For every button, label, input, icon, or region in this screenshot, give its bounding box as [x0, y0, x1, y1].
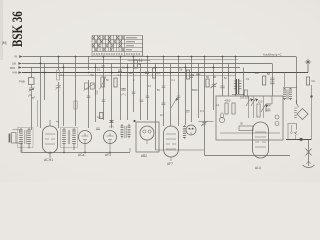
svg-text:KW: KW	[12, 71, 17, 75]
small fuse ellipse	[221, 113, 224, 118]
junction (64,152.5)	[63, 152, 65, 154]
wire drop x63.5	[63, 64, 65, 127]
wire drop x31.5 (PhB feed)	[31, 68, 33, 78]
heater u-shapes	[290, 132, 297, 134]
wire drop x103.5	[103, 57, 105, 121]
tube T6 small circle	[186, 125, 196, 135]
wire x22 to ground bus	[21, 142, 23, 152]
svg-text:4000: 4000	[225, 99, 231, 103]
junction (222.5,56.5)	[222, 56, 224, 58]
junction (133.5,56.5)	[133, 56, 135, 58]
wire drop x198.5	[198, 64, 200, 119]
trimmer x58	[55, 85, 61, 89]
rail y72.5	[22, 72, 308, 74]
wire drop x204.5 and bottom bus	[205, 57, 291, 156]
wire drop x235.5	[235, 57, 237, 97]
junction (85,152.5)	[84, 152, 86, 154]
wire drop x120.5	[120, 57, 122, 121]
capacitor x123	[121, 88, 125, 90]
trimmer capacitor x204	[201, 121, 208, 126]
output transformer coils	[283, 73, 297, 101]
left band labels	[10, 55, 17, 75]
wire drop x58.5	[58, 57, 60, 129]
wire drop x40.5	[40, 57, 42, 129]
junction (155.5,67.5)	[155, 67, 157, 69]
capacitor x147	[145, 72, 149, 74]
svg-text:0,1: 0,1	[118, 73, 122, 77]
variable arrow over cap pair	[84, 84, 95, 91]
resistor x75	[74, 101, 77, 109]
wire x130 bus end	[129, 148, 131, 152]
wire drop x243.5	[243, 68, 245, 97]
svg-text:ACa…: ACa…	[78, 153, 87, 157]
rail y59.5	[90, 59, 238, 61]
link with trimmer cap	[199, 121, 214, 123]
svg-text:AL4: AL4	[255, 166, 261, 170]
junction (311.5,96.5)	[310, 95, 312, 97]
mains drop with switch X	[308, 140, 310, 167]
capacitor x222	[220, 86, 224, 88]
junction (191.5,56.5)	[191, 56, 193, 58]
capacitor x120	[118, 70, 122, 72]
svg-text:MW: MW	[10, 66, 15, 70]
junction (147.5,56.5)	[147, 56, 149, 58]
heater wire stubs	[292, 125, 296, 139]
svg-text:0,1: 0,1	[160, 113, 164, 117]
junction (127.5,67.5)	[127, 67, 129, 69]
mains switch X	[306, 149, 312, 156]
junction (163.5,56.5)	[163, 56, 165, 58]
junction (111.5,121.4)	[111, 120, 113, 122]
junction (178.5,56.5)	[178, 56, 180, 58]
svg-text:PhB: PhB	[19, 80, 25, 84]
junction (63.5,67.5)	[63, 67, 65, 69]
plug arrow barbs	[306, 161, 311, 164]
scattered small capacitor marks mid band	[87, 76, 194, 112]
coil hump above T3	[109, 126, 114, 128]
antenna coil pair	[18, 128, 34, 148]
tube T1 ACH1	[43, 120, 58, 162]
resistor x58 y70-82	[57, 70, 60, 80]
wire drop x95.5	[95, 64, 97, 123]
potentiometer wiper arrow	[100, 77, 107, 90]
junction (185.5,67.5)	[185, 67, 187, 69]
wire hook below speaker	[296, 131, 297, 135]
capacitor x198	[196, 73, 201, 75]
wire drop x133.5	[133, 57, 135, 113]
wire drop x155.5	[155, 64, 157, 151]
small cap x96	[95, 91, 97, 95]
svg-text:50: 50	[213, 75, 216, 79]
corner vertical x272 (rail y63 down to box)	[272, 64, 274, 97]
coil tower right of T5	[183, 125, 186, 139]
svg-text:220: 220	[258, 100, 263, 104]
wire drop x37.5	[37, 100, 39, 127]
coil squiggle below	[29, 95, 35, 99]
junction (103.5,56.5)	[103, 56, 105, 58]
coil hump x123	[121, 94, 126, 96]
wire stub x56	[56, 121, 59, 123]
junction (95.5,67.5)	[95, 67, 97, 69]
right edge vertical	[311, 85, 313, 139]
wire drop x191.5	[191, 57, 193, 123]
svg-text:110 125: 110 125	[240, 96, 250, 100]
left pickup / speaker small box	[13, 130, 20, 134]
junction blob on mains rail	[300, 138, 303, 141]
band switch table	[92, 36, 143, 57]
capacitors x272	[270, 78, 275, 84]
component x246	[244, 90, 247, 96]
tube T2 circle	[78, 131, 92, 158]
resistor at far right 170ohm	[306, 77, 309, 85]
svg-text:0,1: 0,1	[61, 73, 65, 77]
tube T5 oval	[164, 126, 179, 166]
svg-text:0,5: 0,5	[157, 71, 161, 75]
rail y56	[23, 56, 296, 58]
svg-text:ACH1: ACH1	[44, 158, 53, 162]
rail y63	[22, 63, 272, 65]
resistor x154	[152, 68, 155, 78]
cap pair x85-95	[85, 83, 89, 89]
trimmer cap below PhB	[29, 85, 35, 94]
svg-text:W: W	[14, 55, 17, 59]
wire drop x185.5	[185, 64, 187, 126]
junction (170.5,72.5)	[170, 72, 172, 74]
component box x135	[134, 60, 137, 68]
potentiometer x102	[101, 77, 105, 87]
IF transformer 2	[121, 124, 131, 138]
tube T3 circle	[104, 131, 117, 158]
wire drop x222.5	[222, 57, 224, 97]
scattered tiny value labels	[61, 62, 271, 119]
capacitor on link y60	[140, 59, 142, 63]
junction (120.5,56.5)	[120, 56, 122, 58]
capacitor x163	[162, 103, 166, 105]
rail y67	[22, 67, 240, 69]
junction (111.5,72.5)	[111, 72, 113, 74]
junction (40.5,63.5)	[40, 63, 42, 65]
corner vertical x296 (rail y56 down)	[296, 57, 298, 105]
svg-text:BSK 36: BSK 36	[9, 11, 25, 47]
scattered tiny value labels mid band	[97, 67, 250, 108]
wire drop x75.5	[75, 57, 77, 127]
plug arc (anchor)	[303, 165, 315, 168]
junction (213.5,67.5)	[213, 67, 215, 69]
junction (110,152.5)	[109, 152, 111, 154]
wire drop x170.5	[170, 64, 172, 127]
svg-text:AF3: AF3	[105, 153, 111, 157]
junction (204.5,56.5)	[204, 56, 206, 58]
wire drop x44.5	[44, 64, 46, 101]
wire drop x163.5	[163, 57, 165, 127]
junction (228.5,72.5)	[228, 72, 230, 74]
capacitor C2b	[90, 83, 94, 89]
dial lamp top right	[305, 59, 312, 73]
resistor x101	[99, 113, 103, 119]
svg-text:LW: LW	[12, 61, 16, 65]
resistor 1M x264	[262, 76, 265, 85]
choke blob	[232, 79, 244, 95]
trimmer capacitor x214	[211, 83, 218, 88]
wire x31.5 to antenna coil	[31, 93, 33, 130]
wire drop x111.5	[111, 64, 113, 129]
svg-text:AB2: AB2	[141, 154, 147, 158]
resistor x114	[114, 78, 117, 87]
wire drop x213.5	[213, 64, 215, 111]
table X marks	[92, 36, 124, 51]
wire drop x147.5	[147, 57, 149, 121]
speaker field coil	[297, 100, 299, 108]
svg-text:5000: 5000	[192, 89, 198, 92]
avc pot arrow	[171, 99, 177, 109]
tube T4 box with magic eye	[136, 122, 159, 158]
PhB pickup box	[29, 78, 35, 85]
resistor x207	[206, 79, 209, 87]
PSU internals	[219, 96, 280, 133]
svg-text:50: 50	[267, 72, 270, 76]
wire link y60	[128, 59, 151, 61]
svg-text:50: 50	[206, 75, 209, 79]
junction (50,152.5)	[49, 152, 51, 154]
wire x288 to mains rail	[287, 123, 289, 139]
wires IF1 to ground bus	[64, 146, 74, 153]
speaker diamond	[297, 109, 308, 120]
junction (134.5,121)	[133, 120, 135, 122]
junction (88.5,72.5)	[88, 72, 90, 74]
paper background	[0, 0, 320, 182]
wire link y150	[156, 149, 205, 151]
table right column text (smudges)	[94, 38, 141, 54]
mid components right half	[186, 70, 189, 79]
wire drop x228.5	[228, 64, 230, 97]
svg-text:50: 50	[138, 62, 141, 66]
caps cluster near x100-130	[101, 66, 105, 68]
arrows at rail left ends	[18, 55, 23, 73]
ground bus y152.5	[21, 146, 130, 153]
PSU box	[216, 96, 283, 140]
wire drop x140.5	[140, 64, 142, 121]
junction (235.5,56.5)	[235, 56, 237, 58]
svg-text:Ausführung ≈C: Ausführung ≈C	[263, 52, 282, 56]
wire drop x178.5	[178, 57, 180, 127]
svg-text:≈Ω: ≈Ω	[311, 79, 315, 83]
svg-text:0,1: 0,1	[200, 109, 204, 113]
wire drop x127.5	[127, 64, 129, 121]
capacitor above T3	[109, 121, 113, 123]
junction (75.5,56.5)	[75, 56, 77, 58]
wire pickup to coil	[16, 142, 20, 144]
svg-text:AF7: AF7	[167, 162, 173, 166]
junction (44.5,72.5)	[44, 72, 46, 74]
IF transformer 1	[61, 128, 78, 148]
tube T7 output	[253, 122, 269, 170]
mains rail	[286, 139, 312, 141]
wire drop x88.5	[88, 57, 90, 129]
junction (58.5,56.5)	[58, 56, 60, 58]
rail y75.5	[58, 75, 236, 77]
components between T2 and T3	[96, 128, 100, 130]
svg-text:50: 50	[91, 73, 94, 77]
svg-text:[M]: [M]	[2, 41, 7, 45]
wires below speaker	[289, 124, 297, 130]
